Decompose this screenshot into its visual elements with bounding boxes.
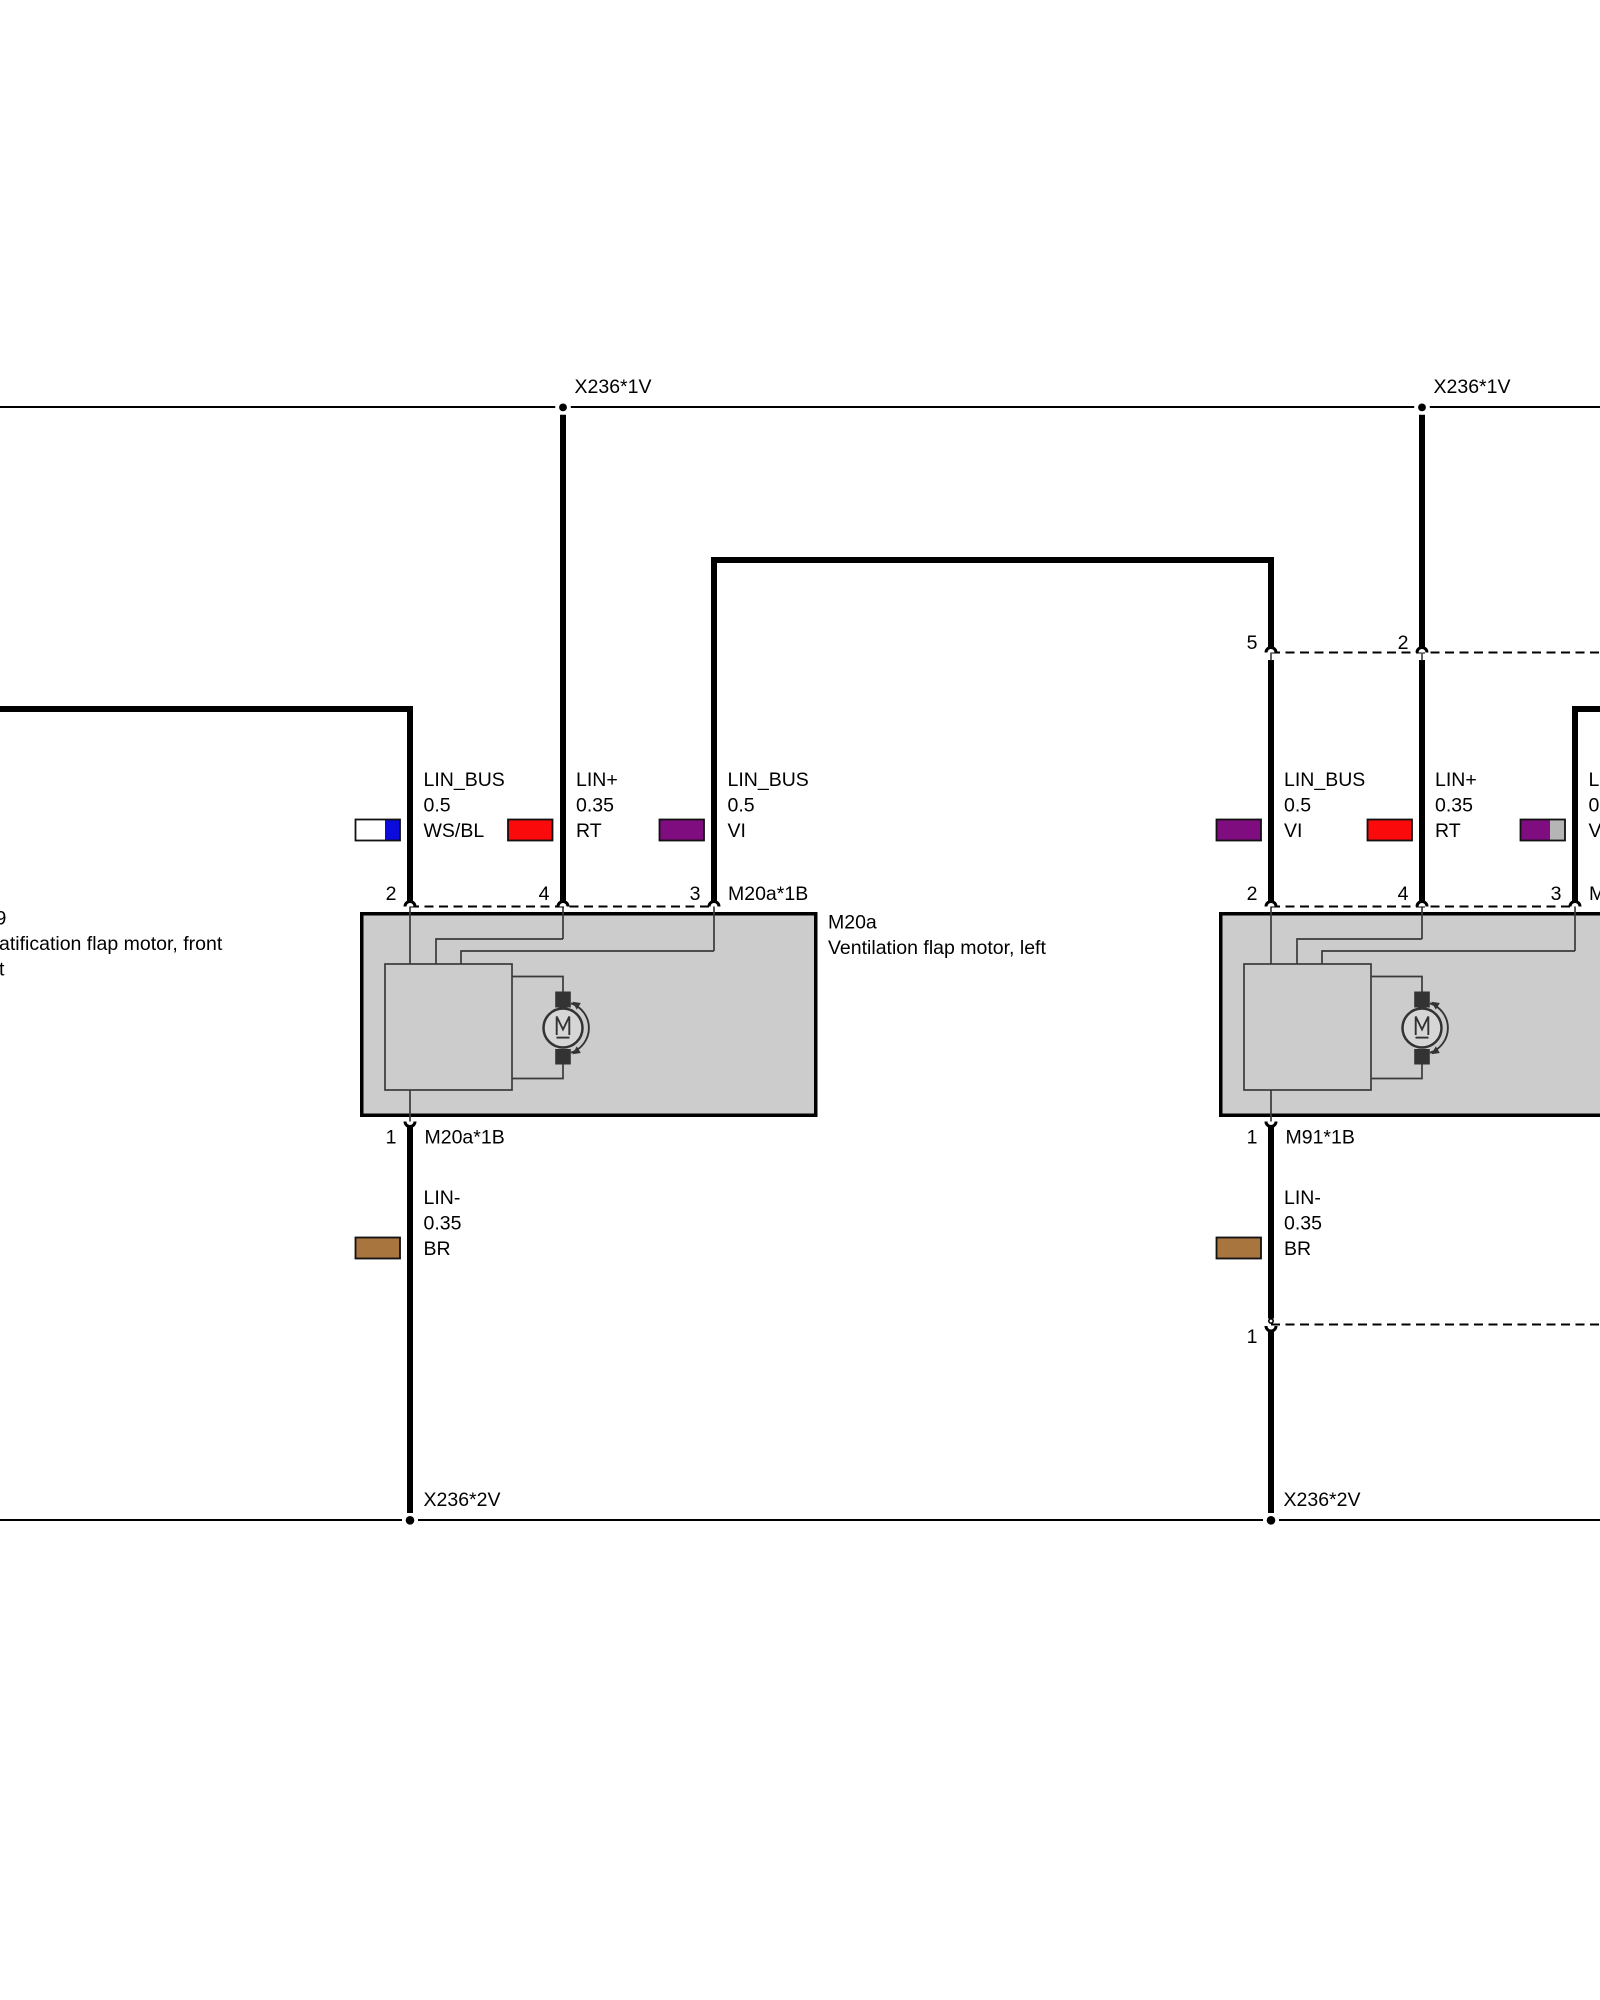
wire LIN- BR from M91 pin1 to connector pin1 <box>1268 1127 1274 1319</box>
pin socket M20a pin4 <box>558 902 568 907</box>
svg-text:0.5: 0.5 <box>1284 794 1311 816</box>
svg-text:M91*1B: M91*1B <box>1589 883 1600 905</box>
svg-text:0.5: 0.5 <box>728 794 755 816</box>
svg-text:LIN-: LIN- <box>424 1187 461 1209</box>
wire color swatch BR (brown) left <box>356 1238 401 1259</box>
inline connector dashed line (pins 5,2) <box>1271 652 1600 654</box>
wire bus X236*1V top rail <box>0 406 555 408</box>
pin socket M91 pin3 <box>1570 902 1580 907</box>
wire LIN+ RT from connector pin2 to M91 pin4 <box>1419 660 1425 902</box>
svg-text:BR: BR <box>424 1238 451 1260</box>
svg-text:1: 1 <box>1247 1326 1258 1348</box>
wire LIN+ RT from X236*1V to connector pin2 <box>1419 415 1425 649</box>
wire color swatch WS/BL (white/blue) <box>356 820 386 841</box>
pin socket inline connector pin5 <box>1266 648 1276 653</box>
svg-text:0.35: 0.35 <box>1284 1212 1322 1234</box>
svg-text:LIN_BUS: LIN_BUS <box>1284 769 1365 791</box>
svg-text:atification flap motor, front: atification flap motor, front <box>0 933 223 955</box>
connector M91*1B dashed plug line <box>1271 906 1575 908</box>
svg-text:1: 1 <box>1247 1127 1258 1149</box>
svg-text:5: 5 <box>1247 632 1258 654</box>
svg-text:3: 3 <box>1551 883 1562 905</box>
wire LIN_BUS WS/BL from left edge to M20a pin2 <box>0 706 413 712</box>
svg-text:VI: VI <box>728 820 746 842</box>
pin socket inline connector pin2 <box>1417 648 1427 653</box>
inline connector dashed line (pin 1) <box>1271 1324 1600 1326</box>
svg-text:9: 9 <box>0 908 6 930</box>
svg-text:t: t <box>0 958 5 980</box>
svg-text:4: 4 <box>539 883 550 905</box>
wire bus X236*2V bottom rail <box>0 1519 402 1521</box>
motor M20a internal circuit (ECU block, wires, DC motor symbol) <box>385 907 714 1122</box>
svg-text:M91*1B: M91*1B <box>1286 1127 1355 1149</box>
wire LIN- BR from M20a pin1 to X236*2V <box>407 1127 413 1513</box>
svg-text:X236*1V: X236*1V <box>1434 376 1511 398</box>
svg-text:VI: VI <box>1284 820 1302 842</box>
svg-text:LIN+: LIN+ <box>576 769 618 791</box>
svg-text:M20a: M20a <box>828 912 877 934</box>
svg-text:X236*1V: X236*1V <box>575 376 652 398</box>
svg-text:BR: BR <box>1284 1238 1311 1260</box>
pin socket M20a pin2 <box>405 902 415 907</box>
svg-text:3: 3 <box>690 883 701 905</box>
pin socket M20a pin3 <box>709 902 719 907</box>
pin socket inline connector pin1 <box>1269 1319 1273 1323</box>
svg-text:VI/GR: VI/GR <box>1589 820 1600 842</box>
svg-text:WS/BL: WS/BL <box>424 820 485 842</box>
wire color swatch BR (brown) right <box>1217 1238 1262 1259</box>
svg-text:LIN_BUS: LIN_BUS <box>424 769 505 791</box>
wire color swatch VI/GR (violet/gray) M91 pin3 <box>1521 820 1551 841</box>
pin socket M91 pin2 <box>1266 902 1276 907</box>
motor M91 internal circuit (ECU block, wires, DC motor symbol) <box>1244 907 1575 1122</box>
svg-text:LIN+: LIN+ <box>1435 769 1477 791</box>
svg-text:4: 4 <box>1398 883 1409 905</box>
pin socket M91 pin1 <box>1266 1122 1276 1127</box>
svg-text:0.5: 0.5 <box>1589 794 1600 816</box>
svg-text:RT: RT <box>1435 820 1461 842</box>
connector M20a*1B dashed plug line <box>410 906 714 908</box>
wire LIN+ RT from X236*1V to M20a pin4 <box>560 415 566 902</box>
svg-text:1: 1 <box>386 1127 397 1149</box>
wire color swatch RT (red) right <box>1368 820 1413 841</box>
motor M20a component box <box>362 914 816 1116</box>
svg-text:2: 2 <box>1398 632 1409 654</box>
svg-text:0.5: 0.5 <box>424 794 451 816</box>
svg-text:Ventilation flap motor, left: Ventilation flap motor, left <box>828 937 1046 959</box>
svg-text:2: 2 <box>1247 883 1258 905</box>
wire color swatch VI (violet) M91 pin2 <box>1217 820 1262 841</box>
junction node X236*2V right (dot) <box>1267 1516 1276 1525</box>
svg-text:0.35: 0.35 <box>576 794 614 816</box>
wire color swatch VI (violet) M20a pin3 <box>660 820 705 841</box>
svg-text:M20a*1B: M20a*1B <box>728 883 808 905</box>
svg-text:LIN-: LIN- <box>1284 1187 1321 1209</box>
svg-text:2: 2 <box>386 883 397 905</box>
wire LIN- BR from connector pin1 to X236*2V <box>1268 1332 1274 1514</box>
pin socket M91 pin4 <box>1417 902 1427 907</box>
junction node X236*1V left (dot) <box>559 404 567 412</box>
svg-text:M20a*1B: M20a*1B <box>425 1127 505 1149</box>
motor M91 component box (clipped at right edge) <box>1221 914 1600 1116</box>
junction node X236*2V left (dot) <box>406 1516 415 1525</box>
svg-text:LIN_BUS: LIN_BUS <box>728 769 809 791</box>
svg-text:LIN_BUS: LIN_BUS <box>1589 769 1600 791</box>
wire LIN_BUS VI from connector pin5 to M91 pin2 <box>1268 660 1274 902</box>
wire color swatch RT (red) left <box>508 820 553 841</box>
svg-text:0.35: 0.35 <box>424 1212 462 1234</box>
wire LIN_BUS VI/GR from M91 pin3 to right edge <box>1572 706 1600 712</box>
pin socket M20a pin1 <box>405 1122 415 1127</box>
svg-text:X236*2V: X236*2V <box>424 1489 501 1511</box>
svg-text:RT: RT <box>576 820 602 842</box>
svg-text:0.35: 0.35 <box>1435 794 1473 816</box>
junction node X236*1V right (dot) <box>1418 404 1426 412</box>
wire LIN_BUS VI from M20a pin3 to connector pin5 <box>711 557 717 902</box>
svg-text:X236*2V: X236*2V <box>1284 1489 1361 1511</box>
